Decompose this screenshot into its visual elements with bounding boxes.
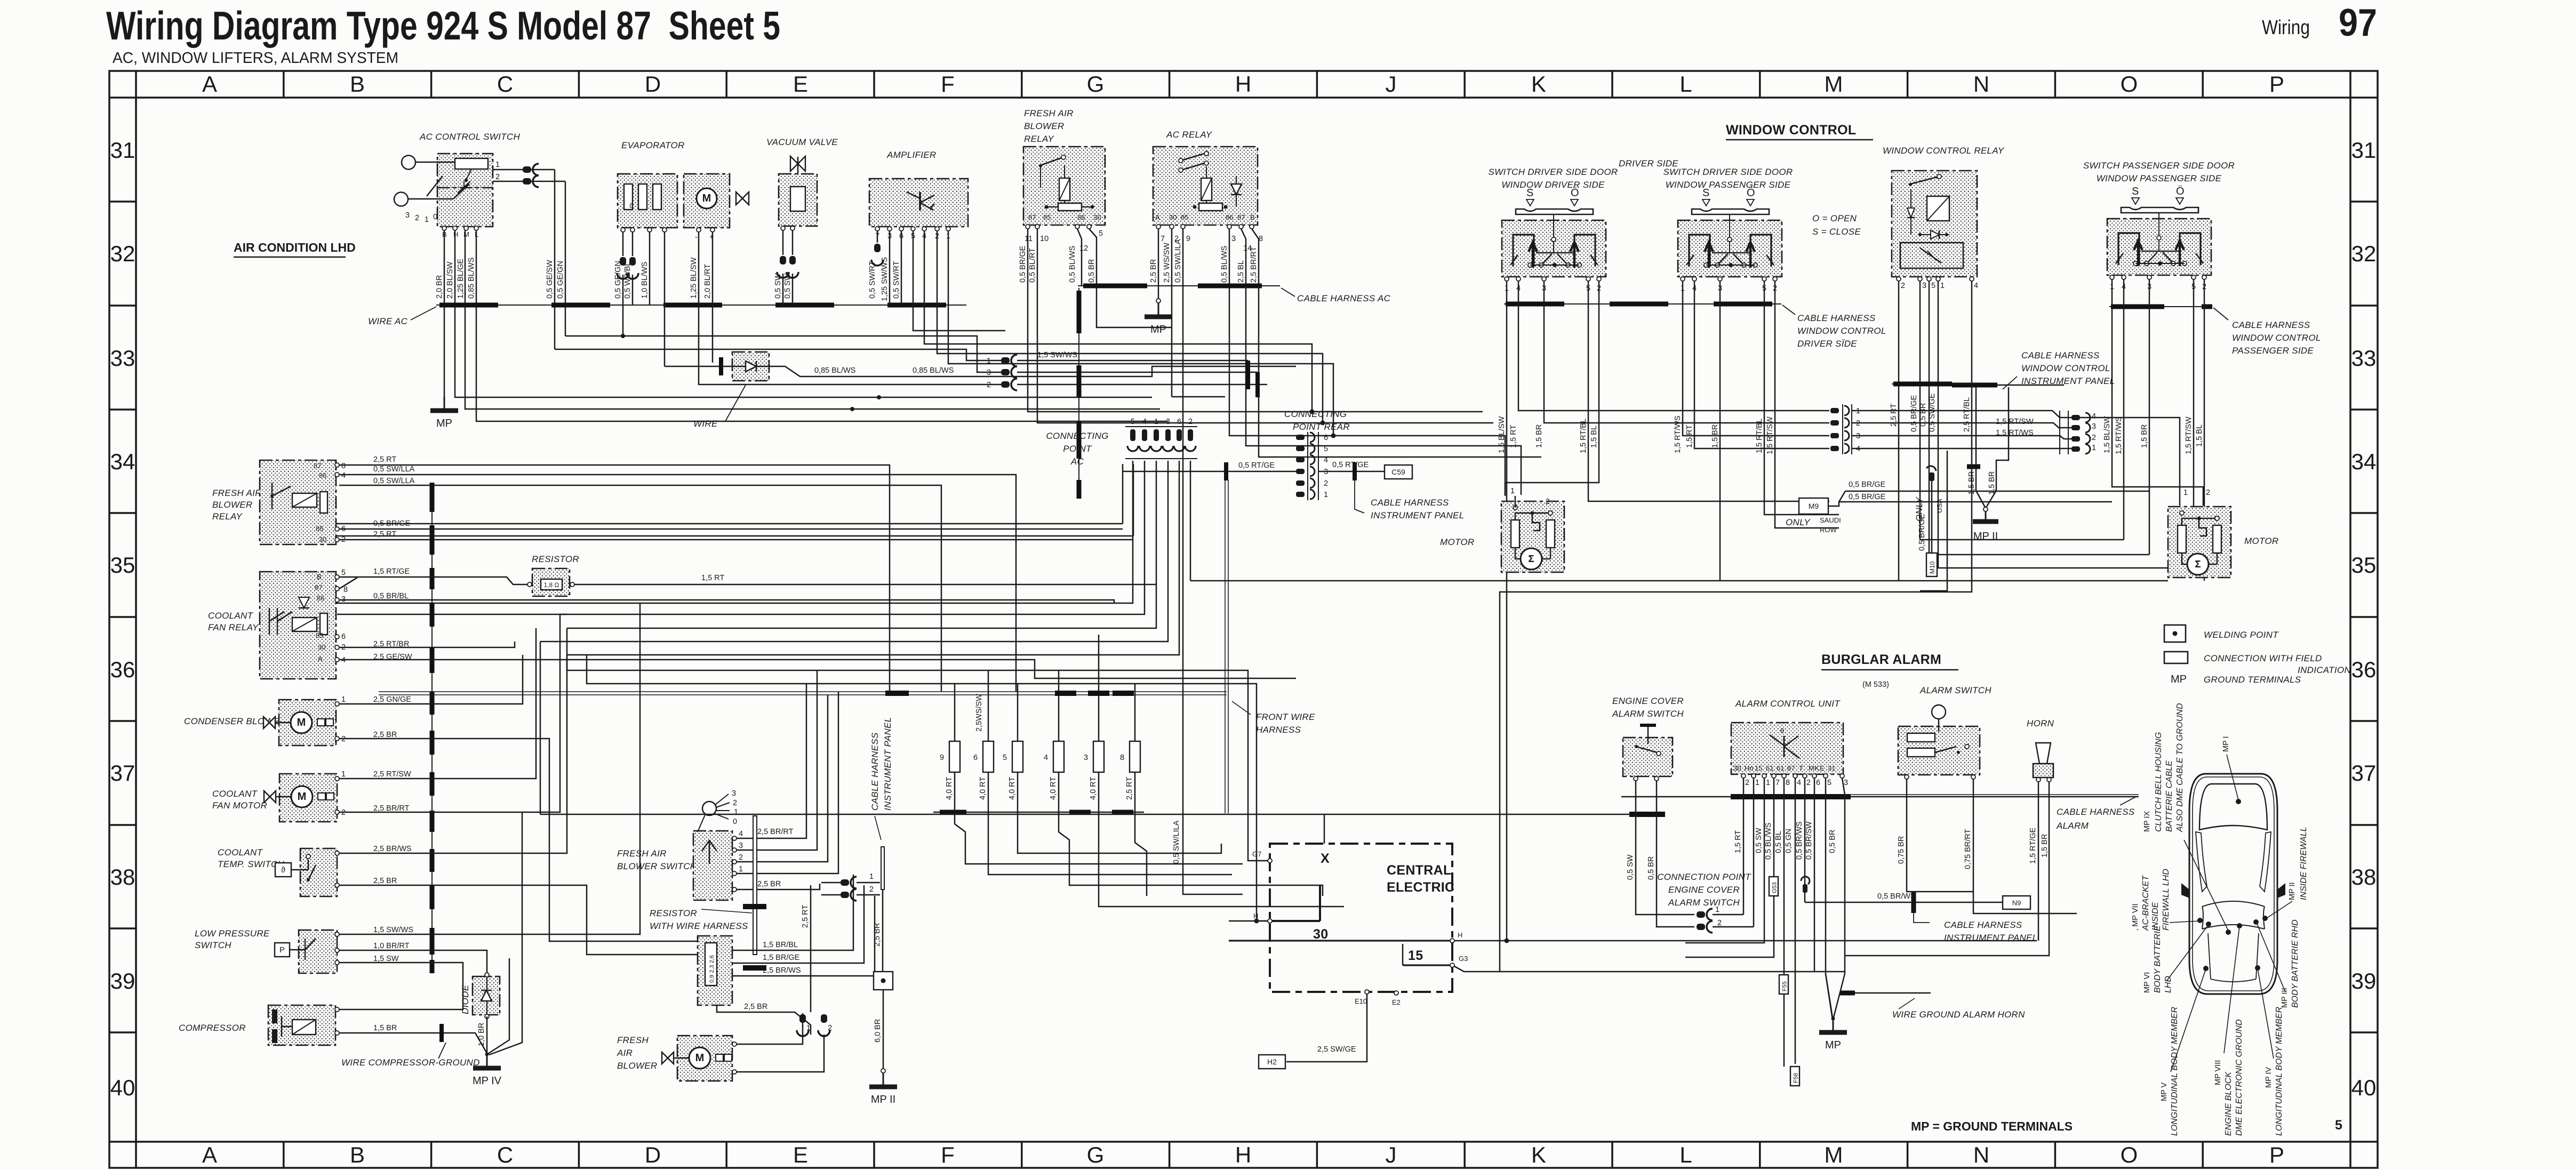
svg-text:1: 1: [739, 865, 743, 874]
svg-text:4,0 RT: 4,0 RT: [1049, 777, 1058, 800]
svg-text:WINDOW PASSENGER SIDE: WINDOW PASSENGER SIDE: [2097, 173, 2222, 183]
svg-text:0,5 RT/GE: 0,5 RT/GE: [1238, 461, 1275, 470]
evaporator pins and polarity: [621, 228, 715, 242]
svg-text:4: 4: [1797, 779, 1801, 787]
svg-text:AC CONTROL SWITCH: AC CONTROL SWITCH: [419, 132, 520, 142]
wire 0.5 GE/SW from S1 pin1: [554, 170, 556, 349]
svg-text:97: 97: [2339, 2, 2377, 44]
bullet pair at instrument panel connector: [821, 872, 880, 901]
label WIRE GROUND ALARM HORN: [1892, 998, 2025, 1020]
svg-text:A: A: [202, 71, 217, 97]
fresh air blower M5 box: [677, 1036, 732, 1081]
wire N9 down: [1913, 902, 1915, 913]
connector H2: [1259, 1045, 1356, 1069]
svg-text:2,0 BL/RT: 2,0 BL/RT: [703, 264, 712, 299]
fresh air blower relay K4 box: [260, 460, 336, 544]
svg-text:COOLANT: COOLANT: [218, 847, 263, 858]
S1 left connector circle 2 with rotary fan: [394, 176, 469, 224]
label COOLANT FAN MOTOR: [212, 789, 267, 811]
svg-text:3: 3: [405, 211, 410, 220]
label COOLANT TEMP SWITCH: [218, 847, 285, 869]
svg-text:2,5 BR/WS: 2,5 BR/WS: [763, 966, 801, 975]
svg-text:0,5 GE/GN: 0,5 GE/GN: [614, 261, 622, 299]
svg-text:CABLE HARNESS: CABLE HARNESS: [870, 732, 880, 811]
svg-text:85: 85: [1181, 213, 1188, 221]
svg-text:E10: E10: [1355, 997, 1367, 1005]
wire 1.25 BL/SW evap motor -: [698, 232, 700, 373]
svg-text:M: M: [297, 717, 306, 728]
coolant fan motor pins: [335, 770, 411, 817]
S9 bell circle: [1932, 705, 1946, 732]
evaporator resistors: [624, 184, 661, 210]
K2 diode: [1231, 176, 1242, 207]
svg-text:1,5 BL/SW: 1,5 BL/SW: [2103, 416, 2111, 453]
svg-text:FRESH: FRESH: [617, 1035, 649, 1045]
wires from connecting point AC upward: [336, 464, 1133, 536]
svg-text:CONNECTION POINT: CONNECTION POINT: [1657, 872, 1751, 882]
svg-text:85: 85: [316, 631, 323, 639]
svg-text:MP VIII: MP VIII: [2214, 1060, 2222, 1085]
wire 2.5 BR/RT K2 pin8: [1252, 229, 1259, 286]
K1 wire labels: [1019, 245, 1096, 283]
svg-text:G: G: [1087, 71, 1105, 97]
wire 2.0 BL/RT evap motor +: [712, 232, 714, 363]
svg-text:2,5 RT: 2,5 RT: [1125, 777, 1134, 800]
svg-text:2,0 BL/SW: 2,0 BL/SW: [446, 261, 454, 299]
svg-text:0,85 BL/WS: 0,85 BL/WS: [814, 366, 855, 375]
K2 pin numbers 7 2 9 3 14 8: [1161, 235, 1263, 253]
svg-text:CONNECTING: CONNECTING: [1046, 431, 1108, 441]
svg-text:ENGINE BLOCK: ENGINE BLOCK: [2224, 1071, 2233, 1136]
svg-text:B: B: [350, 71, 365, 97]
S2 wire labels: [1498, 416, 1598, 453]
svg-text:MP IX: MP IX: [2143, 811, 2151, 832]
K4 internals switch+coil: [270, 483, 327, 513]
svg-text:10: 10: [1040, 235, 1049, 243]
amplifier wire 1.25 SW/WS: [889, 231, 891, 305]
svg-text:MP: MP: [1825, 1039, 1841, 1051]
svg-text:EVAPORATOR: EVAPORATOR: [621, 140, 685, 150]
label CONNECTION POINT ENGINE COVER ALARM SWITCH: [1657, 872, 1751, 908]
fuse F55: [1779, 975, 1788, 994]
K1 terminals 87 85 86 30: [1026, 213, 1101, 229]
svg-text:θ: θ: [1780, 727, 1784, 735]
wire 0.5 BR/GE from K4 85: [339, 528, 1123, 530]
svg-text:FRESH AIR: FRESH AIR: [212, 488, 262, 498]
svg-text:MP V: MP V: [2160, 1082, 2169, 1101]
condenser blower motor+valve: [263, 712, 333, 733]
svg-text:4: 4: [1974, 282, 1978, 290]
wire 2.5 RT/BR from K5 30: [339, 642, 515, 647]
svg-text:1,0 BR/RT: 1,0 BR/RT: [373, 942, 410, 950]
svg-text:COOLANT: COOLANT: [208, 611, 254, 621]
wire into resistor from K5: [339, 577, 527, 584]
svg-text:FIREWALL LHD: FIREWALL LHD: [2162, 869, 2171, 931]
svg-text:1: 1: [2092, 444, 2096, 452]
label CENTRAL ELECTRIC: [1387, 863, 1454, 895]
wires below alarm unit: [1685, 778, 1845, 1067]
alarm control unit internal symbol: [1770, 727, 1799, 758]
connection with field legend: [2164, 652, 2351, 675]
svg-text:K: K: [1531, 1142, 1546, 1167]
label MP VII AC-BRACKET INSIDE FIREWALL LHD: [2131, 869, 2200, 931]
svg-text:B: B: [317, 573, 322, 581]
window control section: [1488, 123, 2194, 943]
wire 2.5 BR from S7 +: [737, 880, 820, 889]
page title: [106, 2, 2377, 67]
svg-text:MP II: MP II: [871, 1094, 895, 1105]
AC control switch S1 upper box: [437, 154, 493, 188]
labels 0.5 GE/SW 0.5 GE/GN near x1040: [546, 260, 565, 299]
coolant temp switch internals: [275, 854, 316, 881]
K2 wire labels: [1149, 239, 1258, 283]
svg-text:1,5 BR: 1,5 BR: [2041, 834, 2049, 858]
svg-text:ROW: ROW: [1820, 526, 1837, 534]
svg-text:2,5 BL: 2,5 BL: [1237, 260, 1245, 283]
S1 pin 1 wire to connector: [493, 161, 538, 170]
svg-text:0,5 BR/WS: 0,5 BR/WS: [1795, 821, 1804, 860]
svg-text:CABLE HARNESS: CABLE HARNESS: [2021, 350, 2100, 360]
wires 0.5 SW 0.5 BR from S8: [1626, 781, 1694, 927]
svg-text:WIRE AC: WIRE AC: [368, 316, 408, 326]
connector N9: [2003, 896, 2030, 909]
svg-text:Wiring Diagram Type 924 S Mode: Wiring Diagram Type 924 S Model 87 Sheet…: [106, 3, 780, 48]
amplifier wire labels: [868, 257, 901, 301]
svg-text:61: 61: [1777, 764, 1784, 772]
svg-text:12: 12: [1079, 244, 1088, 253]
wire 0.5 RT/GE to C59: [1318, 461, 1385, 480]
svg-text:WIRE GROUND ALARM HORN: WIRE GROUND ALARM HORN: [1892, 1009, 2025, 1020]
svg-text:INDICATION: INDICATION: [2298, 665, 2351, 675]
svg-text:6: 6: [1816, 779, 1820, 787]
svg-text:1,5 RT: 1,5 RT: [701, 574, 724, 582]
evaporator valve symbol: [736, 192, 749, 205]
wire 0.5 BR/WS to N9: [1805, 892, 2003, 913]
vacuum valve box: [779, 174, 817, 226]
svg-text:CLUTCH BELL HOUSING: CLUTCH BELL HOUSING: [2154, 732, 2163, 832]
S1 bottom pins B H M L: [442, 226, 478, 238]
window motor passenger side M2: [2168, 507, 2231, 578]
label FRESH AIR BLOWER RELAY left: [212, 488, 262, 522]
wire 0.85 BL/WS pin L: [476, 230, 1168, 421]
svg-text:37: 37: [2351, 760, 2377, 786]
svg-text:3: 3: [732, 789, 736, 798]
fuse connector row: [933, 635, 1344, 907]
wire 1.0 BL/WS evap: [649, 232, 651, 305]
svg-text:G53: G53: [1772, 882, 1778, 893]
svg-text:0,5 BL/WS: 0,5 BL/WS: [1068, 246, 1077, 283]
K1 resistor: [1045, 203, 1094, 211]
ground MP below K2: [1145, 299, 1172, 335]
wires into passenger connector from left: [1852, 411, 2071, 448]
svg-text:2,5 BR/RT: 2,5 BR/RT: [1250, 246, 1258, 283]
svg-text:F55: F55: [1782, 981, 1788, 991]
svg-text:MP IV: MP IV: [473, 1075, 502, 1087]
svg-text:INSTRUMENT PANEL: INSTRUMENT PANEL: [1944, 933, 2037, 943]
svg-text:30: 30: [1733, 764, 1741, 772]
amplifier wire pin7 with connector: [871, 231, 883, 266]
svg-text:ALARM: ALARM: [2056, 821, 2089, 831]
car body outline: [2189, 774, 2277, 994]
svg-text:0,5 SW: 0,5 SW: [774, 273, 782, 299]
svg-text:85: 85: [316, 525, 323, 533]
svg-text:A: A: [202, 1142, 217, 1167]
svg-text:87: 87: [315, 583, 322, 591]
svg-text:USA: USA: [1935, 499, 1943, 513]
terminal X: [1321, 851, 1330, 866]
wire 0.5 BR K1 pin5: [1089, 229, 1172, 327]
svg-text:0,5 BR/BL: 0,5 BR/BL: [373, 592, 409, 600]
svg-text:LOW PRESSURE: LOW PRESSURE: [195, 928, 270, 939]
svg-text:1,5 RT/GE: 1,5 RT/GE: [2029, 827, 2037, 864]
svg-text:32: 32: [110, 241, 135, 266]
bus WIRE AC: [436, 304, 966, 306]
svg-text:0,75 BR/RT: 0,75 BR/RT: [1964, 829, 1972, 869]
svg-text:87: 87: [314, 462, 321, 470]
svg-text:0: 0: [733, 818, 737, 826]
label MP III BODY BATTERIE RHD: [2257, 919, 2300, 1008]
svg-text:0,5 BR/GE: 0,5 BR/GE: [1849, 480, 1886, 489]
svg-text:38: 38: [110, 864, 135, 889]
svg-text:31: 31: [1828, 764, 1835, 772]
svg-text:8: 8: [1786, 779, 1790, 787]
svg-text:0,5 BR/GE: 0,5 BR/GE: [373, 519, 411, 528]
label COOLANT FAN RELAY: [208, 611, 259, 632]
resistor harness R2 box: [698, 936, 732, 1005]
svg-text:30: 30: [1313, 927, 1328, 942]
svg-text:2,5 RT/BL: 2,5 RT/BL: [1963, 397, 1971, 432]
svg-text:86: 86: [1077, 213, 1085, 221]
coolant fan relay K5 box: [260, 572, 336, 679]
wire 0.5 GE/GN evap: [617, 232, 629, 305]
K3 diode h: [1918, 230, 1949, 239]
ground MP IV: [473, 1053, 502, 1087]
svg-text:40: 40: [110, 1075, 135, 1100]
switch driver side door window passenger side S3: [1678, 187, 1782, 277]
svg-text:5: 5: [1003, 754, 1007, 762]
svg-text:MP: MP: [2171, 674, 2187, 685]
svg-text:B: B: [1250, 213, 1255, 221]
svg-text:G3: G3: [1459, 955, 1468, 963]
wire y1110 long: [1500, 386, 1972, 972]
svg-text:H: H: [1235, 1142, 1251, 1167]
svg-text:BLOWER: BLOWER: [212, 500, 252, 510]
wire G3 to right: [1454, 966, 1845, 972]
window control relay K3 box: [1892, 171, 1977, 277]
vertical harness bus at x2023: [1078, 288, 1079, 499]
svg-text:0,5 BR/WS: 0,5 BR/WS: [1877, 892, 1916, 901]
alarm unit pin numbers: [1741, 774, 1848, 787]
svg-text:1,5 RT/WS: 1,5 RT/WS: [2115, 416, 2123, 454]
wires below AC relay going right: [1172, 286, 1541, 495]
svg-text:CABLE HARNESS: CABLE HARNESS: [1371, 498, 1449, 508]
wire passenger connector pin4 to motor pin1: [2080, 418, 2180, 506]
svg-text:C: C: [497, 1142, 513, 1167]
engine cover alarm switch S8: [1623, 725, 1673, 776]
K2 terminals A 30 85 86 87 B: [1155, 213, 1255, 229]
svg-text:P: P: [279, 945, 285, 955]
svg-text:1: 1: [1324, 491, 1328, 499]
svg-text:MOTOR: MOTOR: [2244, 536, 2278, 546]
K3 wire labels: [1890, 393, 1971, 432]
svg-text:1: 1: [869, 872, 874, 881]
label CABLE HARNESS AC with leader: [1281, 288, 1391, 303]
terminal G7: [1252, 850, 1272, 863]
svg-text:86: 86: [1226, 213, 1233, 221]
svg-text:A: A: [1155, 213, 1160, 221]
resistor with wire harness vertical bar: [743, 816, 766, 968]
svg-text:SWITCH PASSENGER SIDE DOOR: SWITCH PASSENGER SIDE DOOR: [2083, 161, 2235, 171]
svg-text:0,5 BR/GE: 0,5 BR/GE: [1019, 245, 1027, 283]
cable harness instrument panel vertical bar: [881, 847, 884, 889]
trio wires continue right: [1017, 360, 1267, 384]
svg-text:O: O: [2121, 71, 2138, 97]
svg-text:0,5 BR/GE: 0,5 BR/GE: [1910, 395, 1918, 432]
car cowl line: [2202, 925, 2265, 929]
K5 internals: [269, 597, 327, 635]
wire ground alarm horn segment: [1840, 992, 1931, 993]
svg-text:ELECTRIC: ELECTRIC: [1387, 880, 1454, 895]
svg-text:85: 85: [1043, 213, 1051, 221]
svg-text:0,5 SW: 0,5 SW: [783, 273, 792, 299]
S3 pins 1 4 3 5 2: [1681, 277, 1777, 293]
K2 switch contacts: [1179, 151, 1209, 172]
wires 0.5 BR/GE from M9: [1828, 480, 2149, 506]
svg-text:1,5 BR/GE: 1,5 BR/GE: [763, 953, 800, 962]
connector C59: [1385, 465, 1412, 479]
car mirror right: [2277, 883, 2285, 898]
svg-text:M: M: [1825, 71, 1843, 97]
svg-text:35: 35: [2351, 552, 2377, 578]
svg-text:2,5 RT: 2,5 RT: [373, 455, 396, 464]
wire 0.5 WS/BL evap: [627, 232, 638, 305]
label ENGINE COVER ALARM SWITCH: [1612, 696, 1684, 719]
svg-text:2,5 RT: 2,5 RT: [801, 905, 810, 928]
svg-text:Ö: Ö: [2176, 186, 2185, 197]
svg-text:WINDOW DRIVER SIDE: WINDOW DRIVER SIDE: [1501, 180, 1605, 190]
car windshield: [2202, 901, 2265, 929]
svg-text:30: 30: [318, 643, 325, 651]
svg-text:2: 2: [1806, 779, 1811, 787]
svg-text:M: M: [298, 791, 307, 803]
svg-text:N: N: [1973, 1142, 1989, 1167]
diode symbol: [732, 361, 769, 372]
svg-text:2,5 BR/WS: 2,5 BR/WS: [373, 845, 412, 853]
label MP I: [2222, 736, 2238, 800]
compressor box: [268, 1005, 335, 1045]
long horizontal 30-feed wire: [540, 814, 1665, 815]
svg-text:COOLANT: COOLANT: [212, 789, 258, 799]
svg-text:2,5WS/SW: 2,5WS/SW: [975, 694, 983, 732]
svg-text:2,5 BR: 2,5 BR: [1149, 259, 1158, 283]
svg-text:2: 2: [828, 1024, 832, 1032]
svg-text:37: 37: [110, 760, 135, 786]
svg-text:Ö: Ö: [1571, 187, 1579, 199]
svg-text:2: 2: [869, 885, 874, 894]
svg-text:7: 7: [1161, 235, 1165, 243]
svg-text:S: S: [2132, 186, 2139, 197]
svg-text:4,0 RT: 4,0 RT: [979, 777, 987, 800]
svg-text:1: 1: [341, 770, 346, 779]
label WIRE leader: [693, 385, 746, 429]
svg-text:34: 34: [110, 449, 135, 474]
svg-text:1: 1: [341, 695, 346, 704]
svg-text:2: 2: [733, 799, 737, 807]
MP ground terminals legend: [2171, 674, 2301, 685]
svg-text:1,25 SW/WS: 1,25 SW/WS: [881, 257, 889, 301]
svg-text:2,5 BR: 2,5 BR: [373, 877, 397, 885]
svg-text:2: 2: [739, 853, 743, 862]
wire into diode with crossbar: [665, 357, 732, 375]
svg-text:E: E: [1820, 764, 1825, 772]
svg-text:1,5 BR: 1,5 BR: [2140, 424, 2149, 448]
svg-text:J: J: [1386, 71, 1397, 97]
long wire y1257: [567, 628, 1268, 861]
svg-text:CABLE HARNESS: CABLE HARNESS: [2057, 807, 2135, 817]
svg-text:5: 5: [1099, 229, 1103, 238]
vacuum valve solenoid: [790, 187, 805, 211]
AC control switch S1 lower box: [437, 188, 493, 227]
fuse G53: [1769, 877, 1778, 896]
svg-text:S: S: [1702, 187, 1709, 199]
label CABLE HARNESS WINDOW CONTROL PASSENGER SIDE: [2213, 308, 2321, 356]
svg-text:5: 5: [1324, 445, 1328, 453]
svg-text:AIR CONDITION LHD: AIR CONDITION LHD: [234, 241, 356, 254]
bus CABLE HARNESS AC: [1078, 285, 1280, 286]
harness bus under fuse row: [933, 812, 1144, 813]
label WIRE AC with leader: [368, 307, 436, 326]
svg-text:C59: C59: [1391, 468, 1405, 476]
svg-text:4: 4: [1324, 456, 1328, 464]
amplifier pins 7 3 6 5 4 2 1: [875, 227, 950, 241]
svg-text:FAN RELAY: FAN RELAY: [208, 622, 259, 632]
svg-text:2,5 BR: 2,5 BR: [744, 1003, 767, 1011]
S1 left connector circle 1: [402, 156, 455, 170]
low pressure switch internals: [275, 939, 316, 960]
svg-text:30: 30: [1169, 213, 1177, 221]
svg-text:LONGITUDINAL BODY MEMBER: LONGITUDINAL BODY MEMBER: [2275, 1006, 2284, 1136]
svg-text:2: 2: [1745, 779, 1749, 787]
wire evap 4: [664, 232, 666, 366]
svg-text:1,0 BR: 1,0 BR: [477, 1023, 486, 1046]
svg-text:1,5 BR: 1,5 BR: [373, 1024, 397, 1032]
label SWITCH DRIVER SIDE DOOR WINDOW DRIVER SIDE: [1488, 167, 1618, 190]
svg-text:39: 39: [110, 968, 135, 993]
svg-text:1,5 SW: 1,5 SW: [373, 955, 399, 963]
svg-text:5: 5: [2335, 1118, 2342, 1133]
svg-text:MP I: MP I: [2222, 736, 2230, 752]
wires below fuse row: [955, 772, 1135, 812]
wire 0.5 BL/RT K1: [1037, 229, 1493, 423]
wire 2.5 RT from K4 30: [339, 539, 1133, 541]
svg-text:0,5 SW/LILA: 0,5 SW/LILA: [1174, 239, 1182, 283]
svg-text:ENGINE COVER: ENGINE COVER: [1612, 696, 1684, 706]
svg-text:ONLY: ONLY: [1786, 517, 1811, 527]
svg-text:0,5 BR: 0,5 BR: [1647, 856, 1655, 880]
svg-text:INSTRUMENT PANEL: INSTRUMENT PANEL: [883, 717, 893, 811]
svg-text:1,5 SW/WS: 1,5 SW/WS: [373, 926, 413, 934]
svg-text:WINDOW CONTROL: WINDOW CONTROL: [2232, 333, 2321, 343]
svg-text:1: 1: [1755, 779, 1759, 787]
svg-text:MP II: MP II: [2288, 882, 2297, 900]
alarm unit terminals: [1733, 764, 1835, 772]
thick harness marks right of trio: [1248, 360, 1258, 397]
svg-text:0,5 WS/BL: 0,5 WS/BL: [623, 262, 632, 299]
svg-text:N: N: [1973, 71, 1989, 97]
bus window control relay: [1892, 383, 1977, 384]
svg-text:2: 2: [1188, 418, 1193, 426]
wire 2.5 BR down from connector: [873, 889, 883, 972]
